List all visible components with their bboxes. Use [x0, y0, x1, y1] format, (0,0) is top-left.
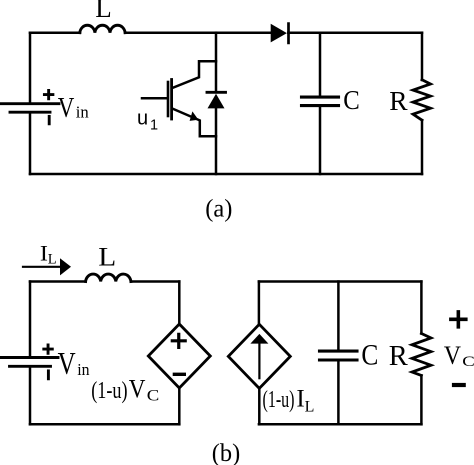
transistor Q1 collector lead [173, 61, 217, 88]
output plus sign [451, 312, 466, 327]
wire: capacitor branch bottom (a) [319, 106, 322, 174]
svg-text:C: C [462, 353, 474, 370]
svg-text:u: u [137, 108, 148, 130]
inductor L (a) [80, 25, 125, 32]
wire: right vertical top (a) [421, 33, 424, 80]
svg-text:L: L [95, 0, 112, 23]
capacitor C (b) [320, 350, 358, 353]
battery Vin (a): long plate [1, 102, 59, 105]
dependent current source (1-u)IL diamond [228, 324, 290, 388]
output minus sign [454, 383, 464, 387]
arrow inside current source [258, 343, 260, 378]
wire: bottom rail left loop (b) [30, 423, 179, 426]
battery plus sign (a) [44, 90, 53, 98]
wire: voltage source top lead [178, 282, 181, 326]
svg-text:C: C [147, 386, 160, 405]
battery Vin (b): short plate [10, 365, 51, 368]
wire: top rail right segment (b) [131, 280, 179, 283]
wire: IGBT branch vertical bottom (a) [215, 108, 218, 174]
plus sign in diamond [172, 334, 185, 347]
svg-text:L: L [305, 398, 315, 415]
battery plus sign (b) [44, 345, 53, 353]
wire: left vertical top (b) [29, 282, 32, 358]
wire: right vertical bottom (b) [420, 376, 423, 425]
arrow IL [23, 266, 61, 268]
battery minus sign (b) [47, 371, 50, 379]
svg-text:R: R [389, 85, 408, 116]
transistor Q1 body bar [170, 80, 173, 120]
svg-text:L: L [98, 243, 116, 272]
svg-text:V: V [58, 92, 75, 124]
wire: IGBT branch vertical top (a) [215, 33, 218, 93]
svg-text:in: in [77, 360, 89, 379]
svg-text:L: L [48, 252, 57, 268]
svg-text:I: I [40, 241, 48, 266]
wire: current source top lead [258, 282, 261, 326]
resistor R (a) [413, 80, 431, 120]
wire: current source bottom lead [258, 388, 261, 424]
transistor Q1 (IGBT) gate lead [142, 97, 167, 100]
capacitor C (a) [302, 96, 339, 99]
svg-text:(1-u): (1-u) [263, 387, 295, 413]
svg-text:(1-u): (1-u) [91, 378, 127, 404]
svg-text:1: 1 [150, 117, 158, 133]
dependent voltage source (1-u)Vc diamond [148, 324, 210, 388]
transistor Q1 emitter arrowhead [190, 111, 199, 121]
wire: left vertical bottom (a) [29, 112, 32, 174]
wire: voltage source bottom lead [178, 388, 181, 424]
battery Vin (a): short plate [10, 111, 50, 114]
diode D1 (series, pointing right) [271, 24, 287, 43]
svg-text:V: V [444, 342, 461, 370]
svg-text:(b): (b) [212, 438, 240, 465]
wire: left vertical bottom (b) [29, 366, 32, 424]
wire: right vertical top (b) [420, 282, 423, 334]
svg-text:R: R [389, 341, 408, 372]
diode D2 (antiparallel, pointing up) [207, 91, 226, 94]
wire: capacitor branch top (a) [319, 33, 322, 97]
transistor Q1 emitter lead [173, 109, 217, 137]
inductor L (b) [86, 274, 131, 281]
svg-text:(a): (a) [205, 195, 232, 222]
minus sign in diamond [174, 373, 184, 376]
svg-text:I: I [296, 386, 304, 413]
svg-text:C: C [343, 85, 360, 115]
wire: top rail right circuit (b) [259, 280, 422, 283]
wire: capacitor branch bottom (b) [337, 360, 340, 424]
wire: top rail left segment (a) [30, 31, 80, 34]
wire: top rail left segment (b) [30, 280, 86, 283]
svg-text:in: in [76, 103, 89, 122]
wire: top rail right segment (a) [288, 31, 422, 34]
wire: right vertical bottom (a) [421, 120, 424, 174]
wire: capacitor branch top (b) [337, 282, 340, 352]
svg-text:C: C [361, 338, 378, 371]
wire: bottom rail (a) [30, 173, 422, 176]
wire: top rail middle segment (a) [125, 31, 271, 34]
wire: left vertical top (a) [29, 33, 32, 104]
svg-text:V: V [129, 375, 146, 404]
resistor R (b) [412, 334, 431, 376]
wire: bottom rail right circuit (b) [259, 423, 422, 426]
battery minus sign (a) [48, 116, 51, 123]
transistor Q1 gate bar [167, 82, 170, 116]
battery Vin (b): long plate [1, 356, 58, 359]
svg-text:V: V [58, 346, 76, 382]
